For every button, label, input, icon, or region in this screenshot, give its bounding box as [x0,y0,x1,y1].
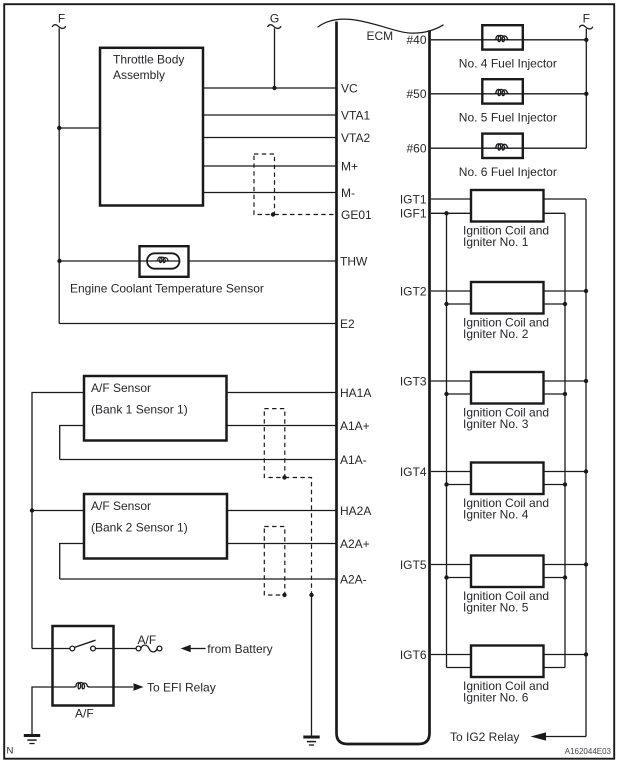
wire THW left (F bus to sensor) [60,260,148,262]
wire HA1A [227,392,336,394]
wire A2A+ wrap from box left [60,544,84,580]
svg-text:VC: VC [341,81,358,95]
node: bank1 shield drain [282,475,286,479]
node: ground bus junction coil 2 [563,302,567,306]
injector solenoid coil no.5 [495,89,509,95]
pin label IGT3 [400,374,427,388]
wire: shield drain dashed link [285,478,312,596]
connector F (top-right) break symbol [579,25,592,29]
from Battery label [207,642,272,656]
connector G label [270,12,279,26]
pin label IGT6 [400,648,427,662]
node: injector bus junction #40 [584,38,588,42]
wire VC [203,87,336,89]
fuel injector box no.6 [482,134,523,158]
ignition coil and igniter no.6 box [471,646,544,678]
svg-text:G: G [270,12,279,26]
wire: relay switch line in [32,648,72,650]
wire: coil 5 IGF side [447,577,472,579]
ECT thermistor coil [156,257,169,262]
wire: coil 3 IGF side [447,393,472,395]
pin label A2A+ [340,537,370,551]
wire: heater feed to bank1 sensor [32,393,84,649]
pin label IGT2 [400,284,427,298]
ignition coil no.2 label [463,315,549,341]
svg-text:E2: E2 [340,317,355,331]
node: F bus to throttle body feed [57,126,61,130]
A/F relay label [75,706,94,720]
figure number A162044E03 [565,747,612,756]
wire: coil 5 ground side [544,577,566,579]
ignition coil no.3 label [463,405,549,431]
wire: heater feed to bank2 sensor [32,510,84,512]
ignition coil and igniter no.5 box [471,556,544,588]
svg-text:(Bank 2 Sensor 1): (Bank 2 Sensor 1) [91,520,188,534]
svg-text:A/F Sensor: A/F Sensor [91,499,151,513]
svg-text:M+: M+ [341,159,358,173]
wire: switch to fuse [95,648,136,650]
pin label E2 [340,317,355,331]
svg-text:IGT1: IGT1 [400,192,427,206]
fuse A/F label [138,633,157,647]
svg-text:ECM: ECM [367,29,394,43]
injector wire through box [482,93,523,95]
svg-text:M-: M- [341,186,355,200]
svg-text:IGT6: IGT6 [400,648,427,662]
wire: coil 6 ground side [544,667,566,669]
ECM label [367,29,394,43]
ECM connector body outline [337,22,430,745]
node: +B bus junction coil 4 [584,469,588,473]
wire A1A+ wrap from box left [60,426,84,460]
wire: injector +B bus [585,29,587,148]
svg-text:(Bank 1 Sensor 1): (Bank 1 Sensor 1) [91,402,188,416]
wire: battery arrow lead [190,648,205,650]
fuel injector box no.4 [482,25,523,49]
wire: shield drain to ground [311,595,313,737]
wire M+ [203,165,336,167]
fuel injector box no.5 [482,79,523,103]
svg-text:F: F [58,12,65,26]
svg-text:A2A-: A2A- [340,572,367,586]
throttle body assembly label [113,53,184,82]
ignition coil no.1 label [463,223,549,249]
wire #60 to injector [431,147,586,149]
pin label #50 [406,87,426,101]
no.5 fuel injector label [459,111,557,125]
pin label THW [340,254,368,268]
svg-text:A/F Sensor: A/F Sensor [91,381,151,395]
wire M- [203,192,336,194]
svg-text:A2A+: A2A+ [340,537,370,551]
svg-text:N: N [7,746,14,757]
svg-text:#40: #40 [406,33,426,47]
ignition coil and igniter no.3 box [471,372,544,404]
no.4 fuel injector label [459,57,557,71]
wire: relay coil left to ground [32,687,75,735]
ignition coil no.6 label [463,679,549,705]
fuse element [141,645,157,652]
ECT sensor element wire [147,260,180,262]
svg-text:#60: #60 [406,142,426,156]
node: +B bus junction coil 3 [584,379,588,383]
wire: coil ground bus [564,213,566,667]
wire: coil 1 +B side [544,198,587,200]
ignition coil and igniter no.1 box [471,190,544,222]
svg-text:Igniter No. 4: Igniter No. 4 [463,508,529,522]
wire: coil 5 +B side [544,564,587,566]
throttle body assembly box [100,48,203,206]
svg-text:A/F: A/F [138,633,157,647]
relay switch contact right [91,646,96,651]
svg-text:VTA1: VTA1 [341,108,370,122]
wire: coil 2 IGF side [447,303,472,305]
wire GE01 (shield drain, dashed) [275,214,336,216]
node: +B bus junction coil 2 [584,289,588,293]
pin label VC [341,81,358,95]
svg-text:Igniter No. 1: Igniter No. 1 [463,235,529,249]
svg-text:Igniter No. 2: Igniter No. 2 [463,327,529,341]
svg-text:F: F [583,12,590,26]
A/F sensor (bank 2) box [84,494,227,559]
ground: relay coil [24,736,40,744]
wire: coil 3 ground side [544,393,566,395]
svg-text:VTA2: VTA2 [341,131,370,145]
pin label #40 [406,33,426,47]
node: IGF bus junction coil 2 [444,302,448,306]
svg-text:IGT3: IGT3 [400,374,427,388]
pin label IGF1 [400,207,427,221]
svg-text:IGT5: IGT5 [400,558,427,572]
wire: coil 2 +B side [544,290,587,292]
engine coolant temperature sensor label [70,282,264,296]
wire #40 to injector [431,39,586,41]
svg-text:A/F: A/F [75,706,94,720]
wire IGT2 to coil [431,290,471,292]
connector F break symbol [52,25,65,29]
node: +B bus junction coil 5 [584,562,588,566]
ignition coil no.5 label [463,589,549,615]
pin label VTA1 [341,108,370,122]
svg-text:IGT4: IGT4 [400,465,427,479]
wire IGT1 to coil [431,198,471,200]
wire: IG2 +B bus [585,199,587,737]
wire: IGF feedback bus [446,213,448,667]
ECM top wavy break line [318,19,444,33]
wire IGT6 to coil [431,654,471,656]
relay switch blade [75,640,96,647]
svg-text:Igniter No. 3: Igniter No. 3 [463,417,529,431]
wire: coil 4 ground side [544,484,566,486]
svg-text:To EFI Relay: To EFI Relay [147,680,216,694]
wire: coil 1 ground side [544,212,566,214]
page letter N [7,746,14,757]
shield box around M+/M- (dashed) [254,154,275,215]
pin label A2A- [340,572,367,586]
A/F relay box [53,626,114,706]
wire IGT5 to coil [431,564,471,566]
relay coil element [75,683,89,689]
svg-text:A162044E03: A162044E03 [565,747,612,756]
svg-text:Engine Coolant Temperature Sen: Engine Coolant Temperature Sensor [70,282,264,296]
relay switch contact left [70,646,75,651]
shield box around A1A+/A1A- (dashed) [264,409,285,478]
svg-text:A1A+: A1A+ [340,419,370,433]
node: injector bus junction #50 [584,92,588,96]
node: IGF bus junction coil 5 [444,575,448,579]
fuse terminal left [136,646,141,651]
arrow: from battery [181,645,191,652]
wire #50 to injector [431,93,586,95]
connector F (top-left) label [58,12,65,26]
svg-text:IGF1: IGF1 [400,207,427,221]
svg-text:Throttle Body: Throttle Body [113,53,184,67]
pin label A1A- [340,453,367,467]
ignition coil and igniter no.4 box [471,463,544,495]
wire: coil 2 ground side [544,303,566,305]
svg-text:Igniter No. 6: Igniter No. 6 [463,691,529,705]
svg-text:IGT2: IGT2 [400,284,427,298]
node: +B bus junction coil 6 [584,652,588,656]
wire A1A+ [227,425,336,427]
wire THW right (sensor to ECM) [189,260,336,262]
svg-text:To IG2 Relay: To IG2 Relay [450,730,519,744]
corner: IGF bus end [0,0,1,1]
node: F bus to ECT sensor [57,259,61,263]
node: bank2 shield drain [282,593,286,597]
ignition coil and igniter no.2 box [471,282,544,314]
ground: shield drain [303,737,319,745]
node: G joins VC wire [272,86,276,90]
svg-text:HA2A: HA2A [340,504,371,518]
wire A2A- [60,578,336,580]
wire E2 [59,323,335,325]
ECT sensor stadium outline [147,253,180,268]
ignition coil no.4 label [463,496,549,522]
node: ground bus junction coil 5 [563,575,567,579]
node: shield drain to ground junction [309,593,313,597]
wire: coil 6 IGF side [447,667,472,669]
svg-text:THW: THW [340,254,368,268]
To EFI Relay label [147,680,216,694]
wire: coil 4 +B side [544,471,587,473]
pin label HA1A [340,386,371,400]
wire: feed to throttle body [59,127,100,129]
node: shield drain junction [271,212,275,216]
arrow: to EFI relay [134,683,144,690]
svg-text:HA1A: HA1A [340,386,371,400]
node: ground bus junction coil 4 [563,482,567,486]
wire IGF1 to coil [431,212,471,214]
connector G break symbol [268,25,281,29]
pin label IGT4 [400,465,427,479]
injector wire through box [482,39,523,41]
svg-text:No. 4 Fuel Injector: No. 4 Fuel Injector [459,57,557,71]
connector F (top-right) label [583,12,590,26]
A/F sensor (bank 1) label [91,381,188,417]
node: IGF bus junction coil 1 [444,211,448,215]
arrow: to IG2 relay [531,732,547,740]
shield box around A2A+/A2A- (dashed) [264,527,285,596]
node: IGF bus junction coil 4 [444,482,448,486]
pin label #60 [406,142,426,156]
svg-text:#50: #50 [406,87,426,101]
wire A2A+ [227,543,336,545]
A/F sensor (bank 1) box [84,376,227,441]
To IG2 Relay label [450,730,519,744]
wire: relay coil to EFI relay [89,686,134,688]
pin label IGT5 [400,558,427,572]
svg-text:GE01: GE01 [341,208,372,222]
pin label GE01 [341,208,372,222]
wire: coil 4 IGF side [447,484,472,486]
wire VTA2 [203,137,336,139]
svg-text:Assembly: Assembly [113,68,165,82]
svg-text:from Battery: from Battery [207,642,272,656]
wire: F feed bus down left side [58,28,60,323]
wire: G down to VC [274,28,276,88]
wire: IG2 relay lead [546,736,586,738]
fuse terminal right [157,646,162,651]
pin label A1A+ [340,419,370,433]
pin label M+ [341,159,358,173]
injector solenoid coil no.4 [495,35,509,41]
injector wire through box [482,147,523,149]
node: heater bus to bank2 [30,508,34,512]
pin label IGT1 [400,192,427,206]
wire IGT3 to coil [431,380,471,382]
svg-text:A1A-: A1A- [340,453,367,467]
node: IGF bus junction coil 3 [444,392,448,396]
svg-text:No. 5 Fuel Injector: No. 5 Fuel Injector [459,111,557,125]
pin label M- [341,186,355,200]
svg-text:Igniter No. 5: Igniter No. 5 [463,601,529,615]
pin label HA2A [340,504,371,518]
engine coolant temp sensor box [140,246,189,277]
wire: coil 6 +B side [544,654,587,656]
A/F sensor (bank 2) label [91,499,188,535]
no.6 fuel injector label [459,165,557,179]
wire A1A- [60,459,336,461]
injector solenoid coil no.6 [495,144,509,150]
wire IGT4 to coil [431,471,471,473]
node: ground bus junction coil 3 [563,392,567,396]
wire VTA1 [203,114,336,116]
wire: coil 3 +B side [544,380,587,382]
pin label VTA2 [341,131,370,145]
svg-text:No. 6 Fuel Injector: No. 6 Fuel Injector [459,165,557,179]
wire HA2A [227,510,336,512]
